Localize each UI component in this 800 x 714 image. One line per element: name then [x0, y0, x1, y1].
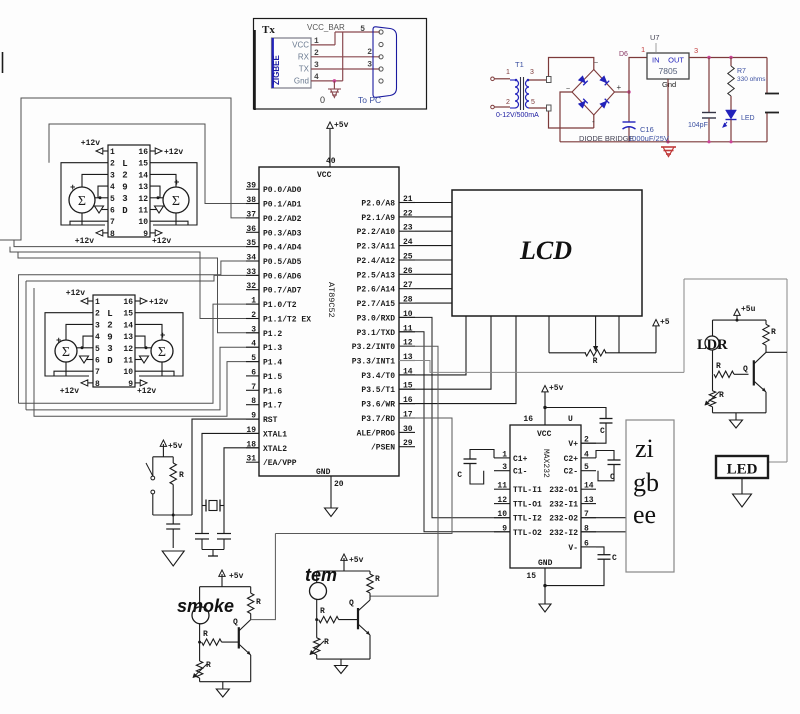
- svg-text:3: 3: [122, 194, 127, 204]
- svg-text:C1+: C1+: [513, 455, 528, 464]
- svg-text:-: -: [592, 117, 595, 126]
- svg-text:ALE/PROG: ALE/PROG: [357, 429, 396, 438]
- svg-text:0: 0: [320, 95, 325, 105]
- svg-text:+: +: [70, 183, 75, 193]
- svg-text:232-I1: 232-I1: [549, 501, 578, 510]
- svg-text:31: 31: [246, 455, 256, 464]
- svg-text:P1.7: P1.7: [263, 402, 282, 411]
- svg-text:tem: tem: [305, 565, 337, 585]
- svg-text:D: D: [122, 206, 128, 216]
- svg-text:7: 7: [251, 383, 256, 392]
- svg-text:MAX232: MAX232: [541, 449, 550, 478]
- svg-text:P0.0/AD0: P0.0/AD0: [263, 186, 302, 195]
- svg-text:2: 2: [506, 99, 510, 106]
- svg-text:Gnd: Gnd: [294, 77, 309, 86]
- svg-text:R: R: [320, 607, 325, 616]
- svg-text:36: 36: [246, 225, 256, 234]
- svg-text:P1.3: P1.3: [263, 344, 282, 353]
- svg-text:4: 4: [110, 183, 115, 192]
- svg-text:P1.5: P1.5: [263, 373, 282, 382]
- svg-text:3: 3: [530, 69, 534, 76]
- svg-text:9: 9: [128, 380, 133, 389]
- svg-text:33: 33: [246, 268, 256, 277]
- svg-text:C16: C16: [640, 125, 654, 134]
- svg-text:10: 10: [497, 510, 507, 519]
- svg-text:23: 23: [403, 224, 413, 233]
- svg-text:1000uF/25V: 1000uF/25V: [628, 134, 669, 143]
- svg-text:Q: Q: [743, 365, 748, 374]
- svg-text:37: 37: [246, 210, 256, 219]
- svg-text:+5v: +5v: [168, 442, 183, 451]
- svg-text:1: 1: [110, 148, 115, 157]
- svg-text:3: 3: [694, 46, 698, 55]
- svg-text:P2.1/A9: P2.1/A9: [361, 214, 395, 223]
- svg-text:P0.5/AD5: P0.5/AD5: [263, 258, 302, 267]
- svg-text:LCD: LCD: [519, 236, 572, 265]
- svg-text:6: 6: [251, 368, 256, 377]
- svg-text:+12v: +12v: [60, 387, 79, 396]
- svg-text:+12v: +12v: [75, 237, 94, 246]
- svg-text:LED: LED: [727, 462, 758, 478]
- svg-text:232-I2: 232-I2: [549, 529, 578, 538]
- svg-text:16: 16: [523, 415, 533, 424]
- svg-text:TTL-O1: TTL-O1: [513, 501, 542, 510]
- svg-text:Σ: Σ: [172, 194, 180, 209]
- svg-text:U7: U7: [650, 33, 660, 42]
- svg-text:+12v: +12v: [81, 139, 100, 148]
- svg-text:7: 7: [110, 218, 115, 227]
- svg-text:P0.4/AD4: P0.4/AD4: [263, 244, 302, 253]
- svg-text:P3.7/RD: P3.7/RD: [361, 415, 395, 424]
- svg-text:12: 12: [497, 496, 507, 505]
- svg-text:16: 16: [123, 298, 133, 307]
- svg-text:38: 38: [246, 196, 256, 205]
- svg-text:2: 2: [107, 321, 112, 331]
- svg-text:R: R: [324, 638, 329, 647]
- svg-text:C: C: [610, 473, 615, 482]
- svg-text:24: 24: [403, 238, 413, 247]
- svg-text:5: 5: [360, 25, 365, 34]
- svg-text:smoke: smoke: [177, 596, 234, 616]
- svg-text:35: 35: [246, 239, 256, 248]
- svg-text:GND: GND: [538, 559, 553, 568]
- svg-text:V-: V-: [568, 544, 578, 553]
- svg-text:15: 15: [526, 572, 536, 581]
- svg-text:+5v: +5v: [349, 556, 364, 565]
- svg-text:R: R: [203, 630, 208, 639]
- svg-text:+5v: +5v: [549, 384, 564, 393]
- svg-text:TTL-O2: TTL-O2: [513, 529, 542, 538]
- svg-text:9: 9: [502, 524, 507, 533]
- svg-text:232-O2: 232-O2: [549, 515, 578, 524]
- svg-text:+: +: [174, 178, 179, 188]
- svg-text:5: 5: [251, 354, 256, 363]
- svg-text:28: 28: [403, 296, 413, 305]
- svg-text:P0.3/AD3: P0.3/AD3: [263, 229, 302, 238]
- svg-text:OUT: OUT: [668, 56, 684, 65]
- svg-text:GND: GND: [316, 468, 331, 477]
- svg-text:7805: 7805: [659, 66, 678, 76]
- svg-text:1: 1: [641, 45, 645, 54]
- svg-text:+12v: +12v: [137, 387, 156, 396]
- svg-text:IN: IN: [652, 56, 660, 65]
- svg-text:+5v: +5v: [229, 572, 244, 581]
- svg-text:12: 12: [123, 345, 133, 354]
- svg-text:R: R: [716, 362, 721, 371]
- svg-text:13: 13: [584, 496, 594, 505]
- svg-text:21: 21: [403, 195, 413, 204]
- svg-text:P0.1/AD1: P0.1/AD1: [263, 201, 302, 210]
- svg-text:5: 5: [95, 345, 100, 354]
- svg-text:P2.2/A10: P2.2/A10: [357, 228, 396, 237]
- svg-text:7: 7: [95, 368, 100, 377]
- svg-text:3: 3: [95, 321, 100, 330]
- svg-text:+12v: +12v: [152, 237, 171, 246]
- svg-text:1: 1: [95, 298, 100, 307]
- svg-text:1: 1: [251, 297, 256, 306]
- svg-text:27: 27: [403, 281, 413, 290]
- svg-text:3: 3: [251, 325, 256, 334]
- svg-text:R: R: [179, 471, 184, 480]
- svg-text:R: R: [593, 357, 598, 366]
- svg-text:/EA/VPP: /EA/VPP: [263, 459, 297, 468]
- svg-text:+5v: +5v: [334, 121, 349, 130]
- svg-text:2: 2: [367, 48, 372, 57]
- svg-text:3: 3: [502, 463, 507, 472]
- svg-text:4: 4: [251, 340, 256, 349]
- svg-text:0-12V/500mA: 0-12V/500mA: [496, 112, 539, 119]
- svg-text:6: 6: [95, 357, 100, 366]
- svg-text:V+: V+: [568, 440, 578, 449]
- svg-text:XTAL1: XTAL1: [263, 430, 287, 439]
- svg-text:2: 2: [122, 171, 127, 181]
- svg-text:P3.2/INT0: P3.2/INT0: [352, 343, 395, 352]
- svg-text:15: 15: [138, 160, 148, 169]
- svg-text:R: R: [771, 328, 776, 337]
- svg-text:+12v: +12v: [164, 148, 183, 157]
- svg-text:P2.7/A15: P2.7/A15: [357, 300, 396, 309]
- svg-text:25: 25: [403, 253, 413, 262]
- svg-text:C: C: [457, 471, 462, 480]
- svg-text:U: U: [568, 415, 573, 424]
- svg-text:3: 3: [110, 171, 115, 180]
- svg-text:5: 5: [110, 195, 115, 204]
- svg-text:R: R: [206, 661, 211, 670]
- svg-text:R: R: [719, 391, 724, 400]
- svg-text:P1.0/T2: P1.0/T2: [263, 301, 297, 310]
- svg-text:RX: RX: [298, 53, 310, 62]
- svg-text:1: 1: [502, 450, 507, 459]
- svg-text:P3.0/RXD: P3.0/RXD: [357, 314, 396, 323]
- svg-text:10: 10: [138, 218, 148, 227]
- svg-text:C: C: [600, 427, 605, 436]
- svg-text:To PC: To PC: [358, 95, 381, 105]
- svg-text:AT89C52: AT89C52: [326, 282, 336, 318]
- svg-text:2: 2: [110, 160, 115, 169]
- svg-text:C2+: C2+: [564, 455, 579, 464]
- svg-text:1: 1: [506, 69, 510, 76]
- svg-text:TX: TX: [299, 65, 310, 74]
- svg-text:ee: ee: [633, 500, 656, 529]
- svg-text:Σ: Σ: [78, 194, 86, 209]
- svg-text:C1-: C1-: [513, 468, 527, 477]
- svg-text:330 ohms: 330 ohms: [737, 76, 766, 83]
- svg-text:+: +: [160, 331, 165, 341]
- svg-text:XTAL2: XTAL2: [263, 445, 287, 454]
- svg-text:34: 34: [246, 254, 256, 263]
- svg-text:~: ~: [566, 86, 570, 93]
- svg-text:104pF: 104pF: [688, 122, 708, 129]
- svg-text:P1.6: P1.6: [263, 387, 282, 396]
- svg-text:5: 5: [531, 99, 535, 106]
- svg-text:8: 8: [95, 380, 100, 389]
- svg-text:P2.6/A14: P2.6/A14: [357, 286, 396, 295]
- svg-text:VCC: VCC: [317, 171, 332, 180]
- svg-text:14: 14: [123, 321, 133, 330]
- svg-text:11: 11: [138, 207, 148, 216]
- svg-text:TTL-I1: TTL-I1: [513, 486, 542, 495]
- svg-text:R: R: [256, 598, 261, 607]
- svg-text:P1.1/T2 EX: P1.1/T2 EX: [263, 316, 311, 325]
- svg-text:D6: D6: [619, 51, 628, 58]
- svg-text:ZIGBEE: ZIGBEE: [272, 55, 281, 85]
- svg-text:VCC: VCC: [292, 41, 309, 50]
- svg-text:30: 30: [403, 425, 413, 434]
- svg-text:Q: Q: [349, 599, 354, 608]
- svg-text:4: 4: [584, 450, 589, 459]
- svg-text:32: 32: [246, 282, 256, 291]
- svg-text:P3.5/T1: P3.5/T1: [361, 386, 395, 395]
- svg-text:39: 39: [246, 182, 256, 191]
- svg-text:L: L: [122, 159, 127, 169]
- svg-text:16: 16: [138, 148, 148, 157]
- svg-text:P0.6/AD6: P0.6/AD6: [263, 272, 302, 281]
- svg-text:6: 6: [584, 539, 589, 548]
- svg-text:P3.4/T0: P3.4/T0: [361, 372, 395, 381]
- svg-text:Gnd: Gnd: [662, 80, 676, 89]
- svg-text:~: ~: [594, 60, 598, 67]
- svg-text:/PSEN: /PSEN: [371, 444, 395, 453]
- svg-text:Σ: Σ: [62, 345, 70, 360]
- svg-text:2: 2: [95, 310, 100, 319]
- svg-text:D: D: [107, 356, 113, 366]
- svg-text:14: 14: [138, 171, 148, 180]
- svg-text:9: 9: [122, 182, 127, 192]
- svg-text:8: 8: [251, 397, 256, 406]
- svg-text:R7: R7: [737, 68, 746, 75]
- svg-text:zi: zi: [635, 434, 654, 463]
- svg-text:4: 4: [95, 333, 100, 342]
- svg-text:+5u: +5u: [741, 305, 756, 314]
- svg-text:P3.3/INT1: P3.3/INT1: [352, 358, 395, 367]
- svg-text:26: 26: [403, 267, 413, 276]
- svg-text:20: 20: [334, 480, 344, 489]
- svg-text:P2.0/A8: P2.0/A8: [361, 200, 395, 209]
- svg-text:P2.5/A13: P2.5/A13: [357, 271, 396, 280]
- svg-text:11: 11: [123, 357, 133, 366]
- svg-text:232-O1: 232-O1: [549, 486, 578, 495]
- svg-text:Σ: Σ: [158, 345, 166, 360]
- svg-text:gb: gb: [633, 468, 659, 497]
- svg-text:11: 11: [497, 482, 507, 491]
- svg-text:+: +: [617, 83, 622, 92]
- svg-text:13: 13: [123, 333, 133, 342]
- svg-text:VCC: VCC: [537, 430, 552, 439]
- svg-text:10: 10: [123, 368, 133, 377]
- svg-text:P1.4: P1.4: [263, 359, 282, 368]
- svg-text:+12v: +12v: [149, 298, 168, 307]
- svg-text:+: +: [56, 336, 61, 346]
- svg-text:3: 3: [107, 344, 112, 354]
- svg-text:5: 5: [584, 463, 589, 472]
- svg-text:P3.6/WR: P3.6/WR: [361, 401, 395, 410]
- svg-text:9: 9: [143, 230, 148, 239]
- svg-text:6: 6: [110, 207, 115, 216]
- svg-text:P2.4/A12: P2.4/A12: [357, 257, 396, 266]
- svg-text:Tx: Tx: [262, 24, 275, 36]
- svg-text:P0.2/AD2: P0.2/AD2: [263, 215, 302, 224]
- svg-text:C2-: C2-: [564, 468, 578, 477]
- svg-text:3: 3: [367, 61, 372, 70]
- svg-text:C: C: [612, 554, 617, 563]
- svg-text:29: 29: [403, 439, 413, 448]
- svg-text:TTL-I2: TTL-I2: [513, 515, 542, 524]
- svg-text:DIODE BRIDGE: DIODE BRIDGE: [579, 134, 634, 143]
- svg-text:8: 8: [110, 230, 115, 239]
- svg-text:L: L: [107, 309, 112, 319]
- svg-text:14: 14: [584, 482, 594, 491]
- svg-text:R: R: [375, 575, 380, 584]
- svg-text:LED: LED: [741, 115, 755, 122]
- svg-text:9: 9: [107, 332, 112, 342]
- svg-text:Q: Q: [233, 618, 238, 627]
- svg-text:RST: RST: [263, 416, 278, 425]
- svg-text:13: 13: [138, 183, 148, 192]
- svg-text:40: 40: [326, 157, 336, 166]
- svg-text:P3.1/TXD: P3.1/TXD: [357, 329, 396, 338]
- svg-text:P0.7/AD7: P0.7/AD7: [263, 287, 302, 296]
- svg-text:15: 15: [123, 310, 133, 319]
- svg-text:T1: T1: [515, 60, 524, 69]
- svg-text:22: 22: [403, 209, 413, 218]
- svg-text:+12v: +12v: [66, 289, 85, 298]
- svg-text:+5: +5: [660, 318, 670, 327]
- svg-text:VCC_BAR: VCC_BAR: [307, 23, 345, 32]
- svg-text:12: 12: [138, 195, 148, 204]
- svg-text:2: 2: [251, 311, 256, 320]
- svg-text:P2.3/A11: P2.3/A11: [357, 243, 396, 252]
- svg-text:P1.2: P1.2: [263, 330, 282, 339]
